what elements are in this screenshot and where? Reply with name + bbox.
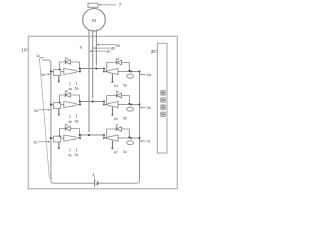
svg-text:6a: 6a [75,86,79,90]
svg-text:6b: 6b [75,119,79,123]
diode D1 [65,60,70,64]
label 1e [115,90,119,94]
gate lead Q4 [111,107,113,116]
gate lead Q2 [111,74,113,83]
svg-text:1: 1 [92,172,95,177]
label 1c [64,123,68,127]
gate lead Q3 [58,109,60,116]
svg-text:1a: 1a [64,56,68,60]
enclosure box 10 [28,36,177,189]
label 8 [80,45,82,50]
leader 3b P-bus [34,109,51,113]
current sensor row3 [127,141,134,145]
svg-text:4e: 4e [114,117,118,121]
wire phase node row2 [79,100,105,104]
node M2 [103,104,105,106]
transistor Q3 package [54,103,61,109]
svg-text:M: M [92,18,96,24]
label 10 [21,48,28,53]
transistor Q5 package [54,136,61,142]
current sensor row1 [127,74,134,78]
transistor Q2 [104,68,132,75]
leader 7 [99,3,122,8]
transistor Q4 [104,101,132,108]
svg-text:2b: 2b [147,106,151,110]
svg-text:10: 10 [21,48,27,53]
svg-text:8c: 8c [107,49,111,54]
svg-text:3a: 3a [41,73,46,77]
diode D5 [65,126,70,130]
leader 2b N-bus [140,106,151,110]
wire diode branch D4 [106,96,131,106]
svg-text:2a: 2a [147,73,152,77]
control device vertical text (控制装置) [161,91,165,116]
wire diode branch D5 [59,129,81,138]
svg-text:5c: 5c [123,150,127,154]
wire P feed row1 [50,70,54,72]
diode D2 [116,60,121,64]
label 1a [64,56,68,60]
wire bottom rail [51,181,140,183]
wire N feed row2 [131,103,141,105]
wire P bus top bend [42,60,51,63]
diode D6 [116,127,121,131]
svg-text:8b: 8b [111,46,115,51]
wire phase w [88,29,90,132]
svg-text:4b: 4b [68,120,72,124]
svg-text:30: 30 [151,49,157,54]
leader 8c [89,49,110,54]
svg-text:1c: 1c [36,54,40,58]
label 4b [68,115,79,125]
svg-text:3c: 3c [33,141,37,145]
svg-text:3b: 3b [34,109,38,113]
label 4e [114,116,128,120]
label 30 [151,49,158,54]
wire phase v [92,30,94,98]
wire phase u [95,29,97,65]
svg-text:5a: 5a [123,83,127,87]
diode D3 [65,93,70,97]
wire phase node row1 [79,67,105,71]
svg-text:1e: 1e [115,90,119,94]
wire P feed row2 [50,103,54,105]
svg-text:1f: 1f [115,123,118,127]
svg-text:8a: 8a [116,42,121,47]
leader 3c P-bus [33,141,50,145]
svg-text:1c: 1c [64,123,68,127]
wire P bus left [50,63,52,181]
gate lead Q5 [58,142,60,149]
label 4a [68,82,79,92]
svg-text:4d: 4d [114,84,118,88]
wire N feed row1 [131,70,141,72]
leader 3a P-bus [41,73,51,77]
svg-text:2c: 2c [147,140,151,144]
label 4d [114,83,128,87]
wire phase node row3 [79,134,105,138]
leader 8b [93,46,115,51]
node M3 [103,137,105,139]
wire diode branch D3 [59,95,81,104]
label 1b [64,89,68,93]
label 4f [114,150,128,154]
transistor Q1 [61,68,81,75]
control device box 30 [157,43,167,153]
wire diode branch D2 [106,63,131,73]
battery 1 [95,180,98,187]
svg-text:4c: 4c [68,154,72,158]
wire N feed row3 [131,137,141,139]
transistor Q5 [61,134,81,141]
motor M [83,8,106,31]
leader 1 [92,172,95,180]
label 4c [68,148,79,158]
wire diode branch D1 [59,62,81,71]
leader 2c N-bus [140,140,151,144]
wire N bus right [139,72,141,181]
svg-text:4f: 4f [114,150,117,154]
label 1d [115,57,119,61]
svg-text:5b: 5b [123,116,127,120]
svg-text:7: 7 [119,3,122,8]
leader 1c slant [36,54,49,178]
svg-text:1d: 1d [115,57,119,61]
gate lead Q1 [58,76,60,83]
svg-text:6c: 6c [75,153,79,157]
svg-text:8: 8 [80,45,82,50]
wire P feed row3 [50,137,54,139]
transistor Q6 [104,134,132,141]
wire diode branch D6 [106,129,131,139]
rotation sensor 7 [88,3,98,7]
svg-text:1b: 1b [64,89,68,93]
leader 2a N-bus [140,73,152,77]
diode D4 [116,93,121,97]
transistor Q3 [61,101,81,108]
svg-text:4a: 4a [68,87,72,91]
label 1f [115,123,118,127]
transistor Q1 package [54,70,61,76]
current sensor row2 [127,107,134,111]
leader 8a [97,42,121,47]
gate lead Q6 [111,141,113,150]
node M1 [103,71,105,73]
